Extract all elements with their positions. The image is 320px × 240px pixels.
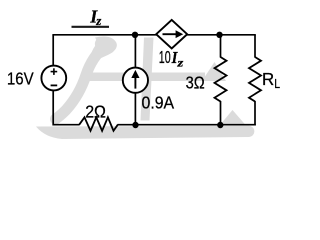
wire: bottom horizontal, left of 2-ohm resistor: [53, 124, 79, 126]
dependent source diamond 10Iz: [156, 20, 187, 49]
watermark swoosh stroke (top-left diagonal): [56, 46, 106, 119]
wire: left vertical branch: [52, 35, 54, 126]
wire: right vertical (R_L branch) top lead: [254, 35, 256, 58]
current direction bar under Iz: [72, 26, 110, 28]
watermark arrow tip near 3ohm: [202, 62, 226, 81]
minus sign of 16V source: [51, 84, 58, 86]
svg-text:L: L: [274, 77, 280, 91]
diamond arrow: [163, 30, 184, 38]
svg-text:R: R: [262, 69, 274, 89]
watermark vertical strip: [141, 38, 154, 121]
svg-text:2Ω: 2Ω: [85, 101, 106, 121]
resistor R_L zigzag: [249, 57, 261, 102]
svg-text:3Ω: 3Ω: [186, 73, 205, 93]
current source 0.9A circle: [123, 68, 148, 93]
wire: right vertical (R_L branch) bottom lead: [254, 101, 256, 126]
watermark swoosh head: [91, 34, 118, 64]
resistor 2-ohm zigzag: [79, 117, 118, 131]
svg-text:z: z: [176, 55, 183, 69]
wire: bottom horizontal, right of 2-ohm resistor: [118, 124, 256, 126]
voltage source 16V circle: [41, 66, 66, 91]
plus sign of 16V source: [51, 68, 58, 75]
wire: middle branch top lead (to 0.9A source): [134, 35, 136, 68]
wire: 3-ohm branch top lead: [220, 35, 222, 58]
svg-text:16V: 16V: [7, 69, 34, 89]
junction node top-right (3-ohm): [216, 32, 222, 38]
junction node top-middle: [132, 32, 138, 38]
watermark bottom bar: [36, 126, 254, 139]
wire: 3-ohm branch bottom lead: [220, 101, 222, 125]
junction node bottom-middle: [132, 122, 138, 128]
wire: middle branch bottom lead: [134, 93, 136, 125]
resistor 3-ohm zigzag: [215, 57, 227, 102]
watermark horizontal band: [88, 73, 205, 82]
junction node bottom-right (3-ohm): [217, 122, 223, 128]
svg-text:10: 10: [159, 47, 171, 67]
svg-text:0.9A: 0.9A: [142, 92, 175, 112]
0.9A source arrow: [131, 70, 139, 89]
wire: top horizontal from left corner to right corner: [52, 34, 255, 36]
watermark mountain triangle: [220, 110, 247, 126]
